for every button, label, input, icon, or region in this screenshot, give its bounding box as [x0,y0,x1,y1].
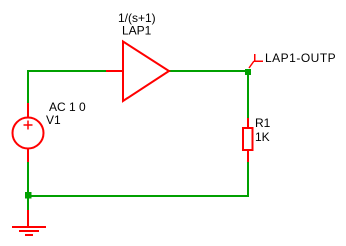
svg-text:AC 1 0: AC 1 0 [49,100,86,114]
svg-text:LAP1: LAP1 [122,24,152,38]
svg-text:LAP1-OUTP: LAP1-OUTP [265,51,336,65]
svg-text:V1: V1 [46,113,61,127]
svg-text:1K: 1K [255,130,270,144]
svg-text:R1: R1 [255,116,271,130]
